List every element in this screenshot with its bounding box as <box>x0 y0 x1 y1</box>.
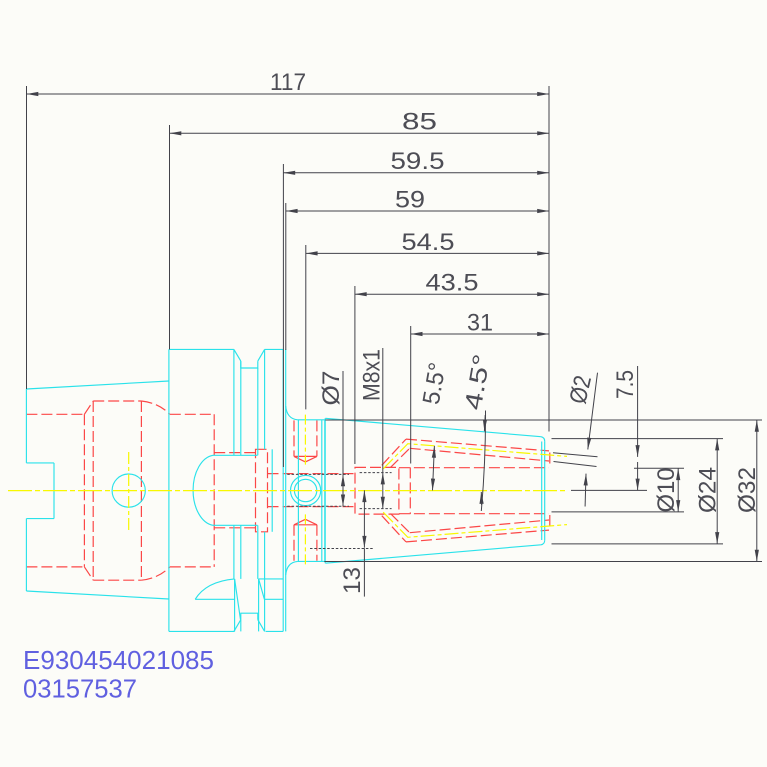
nose bore bottom <box>399 513 549 515</box>
hidden line top flange <box>170 413 214 415</box>
dim line 43.5 <box>355 293 549 295</box>
collet chamfer leg 2 bottom <box>391 514 410 533</box>
flange top edge <box>169 348 234 350</box>
ext line phi7 bottom <box>287 505 349 507</box>
top cross hole drill point <box>294 456 317 462</box>
collar circle edge a <box>297 420 299 562</box>
leader 4.5deg <box>481 411 485 512</box>
barrel vertical 1 <box>92 401 94 580</box>
ext line phi32 bottom <box>324 561 762 563</box>
collet taper inner bottom <box>410 520 549 533</box>
svg-text:Ø32: Ø32 <box>734 467 761 513</box>
ext line phi24 bottom <box>552 543 724 545</box>
top cross hole left edge <box>293 420 295 456</box>
dim line 59.5 <box>283 172 549 174</box>
neck fillet top <box>286 406 298 420</box>
collar2 bottom edge <box>266 630 284 632</box>
svg-text:59: 59 <box>395 187 425 214</box>
notch floor <box>53 463 55 519</box>
flange circle edge 4 lower <box>264 532 266 632</box>
dim line 54.5 <box>306 252 549 254</box>
cone top edge <box>325 418 541 436</box>
svg-text:85: 85 <box>402 109 437 136</box>
nose corner top <box>541 437 545 442</box>
ext line nose face <box>548 86 550 432</box>
side hole outer circle <box>291 475 321 505</box>
ext line 13 <box>310 548 374 550</box>
dim line phi7 <box>342 474 344 506</box>
bottom cross hole drill point <box>294 519 317 525</box>
barrel bottom line <box>93 579 141 581</box>
svg-text:117: 117 <box>270 69 306 96</box>
shank bore vertical centerline <box>128 452 130 530</box>
shank taper top <box>26 381 169 389</box>
flange bottom edge <box>169 630 235 632</box>
slot ext diagonal upper <box>553 453 598 457</box>
pocket top line <box>214 452 255 454</box>
svg-text:7.5: 7.5 <box>612 370 639 399</box>
barrel top line <box>93 400 141 402</box>
M8 thread square <box>355 467 399 514</box>
pocket square <box>256 449 268 532</box>
svg-text:54.5: 54.5 <box>402 229 455 256</box>
collet chamfer leg 1 top <box>382 439 406 465</box>
dim line phi24 <box>716 439 718 544</box>
barrel chamfer bottom-left <box>84 567 93 580</box>
flange circle edge 2 upper <box>240 361 242 455</box>
barrel vertical 2 <box>140 401 142 580</box>
collar bottom edge <box>298 560 325 562</box>
bore line lower (flange to M8) <box>268 506 356 508</box>
svg-text:Ø10: Ø10 <box>653 468 680 513</box>
ext line flange face <box>169 125 171 349</box>
slot ext diagonal lower <box>554 462 597 467</box>
ext line 7.5 bottom <box>571 489 647 491</box>
notch top <box>26 462 54 464</box>
leader 5.5deg <box>433 446 435 491</box>
drive slot diagonal left <box>235 579 241 620</box>
ext line phi24 top <box>552 438 724 440</box>
dim line 7.5 lower <box>637 462 639 490</box>
nose face hidden edge top <box>549 453 551 467</box>
ext line 43.5 <box>354 286 356 464</box>
collar2 right face <box>282 349 284 631</box>
flange groove floor top <box>241 361 258 368</box>
drive slot floor <box>195 598 234 600</box>
bore line upper (flange to M8) <box>268 473 356 475</box>
pocket visible edge <box>271 449 273 532</box>
dome arc <box>193 455 213 525</box>
ext line phi32 top <box>325 419 762 421</box>
bottom cross hole right edge <box>316 525 318 561</box>
svg-text:Ø7: Ø7 <box>318 371 345 406</box>
dim line 13 <box>363 490 365 547</box>
ext line phi10 bottom <box>552 511 685 513</box>
ext line phi10 top <box>634 467 684 469</box>
leader phi2 lower <box>584 474 587 507</box>
hidden line bottom flange <box>170 566 214 568</box>
ext line M8 bottom <box>360 508 392 510</box>
neck upper vertical <box>285 349 287 631</box>
shank hidden bore top line <box>26 413 84 415</box>
collet chamfer leg 2 top <box>391 448 410 467</box>
nose right face <box>544 441 546 540</box>
svg-text:M8x1: M8x1 <box>359 349 386 401</box>
ext line 54.5 <box>305 245 307 409</box>
neck fillet bottom <box>286 561 298 575</box>
barrel arc top-right <box>141 401 169 414</box>
drive slot cylinder arc <box>195 579 234 599</box>
barrel left vertical <box>83 414 85 567</box>
bottom hole centerline <box>304 514 306 566</box>
flange circle edge 3 upper <box>257 368 259 455</box>
dim line 7.5 upper <box>637 366 639 457</box>
dome stadium top <box>213 454 258 456</box>
dim line M8 leader <box>382 348 384 473</box>
collet taper outer bottom <box>406 530 549 542</box>
drive slot right shelf <box>259 578 284 580</box>
bottom cross hole left edge <box>293 525 295 561</box>
dim line phi32 <box>756 420 758 562</box>
drive slot edge vertical left <box>234 579 236 632</box>
main centerline <box>8 490 567 492</box>
collar circle edge b <box>321 420 323 562</box>
ext line M8 top <box>360 472 392 474</box>
ext line phi7 top <box>287 473 349 475</box>
collar2 top edge <box>265 348 284 350</box>
nose chamfer circle edge <box>541 442 543 541</box>
barrel arc bottom-right <box>141 567 169 580</box>
bottom cross hole flat <box>294 524 317 526</box>
pocket bottom line <box>214 527 255 529</box>
collet taper inner top <box>410 448 549 461</box>
shank bore circle <box>112 474 145 507</box>
flange circle edge 1 lower <box>233 525 235 579</box>
top cross hole flat <box>294 455 317 457</box>
drive slot right floor <box>264 598 283 600</box>
collet chamfer leg 1 bottom <box>382 516 406 542</box>
dim line phi7 leader <box>342 371 344 474</box>
shank hidden bore bottom line <box>26 566 84 568</box>
svg-text:03157537: 03157537 <box>23 674 137 704</box>
cone bottom edge <box>325 545 541 563</box>
drive slot diagonal right <box>259 579 265 599</box>
dome stadium bottom <box>213 524 258 526</box>
collar circle edge c <box>324 420 326 562</box>
top cross hole right edge <box>316 420 318 456</box>
flange groove chamfer top-right <box>258 349 265 361</box>
barrel chamfer top-left <box>84 401 93 414</box>
shank left face lower <box>25 519 27 591</box>
nose face hidden edge bottom <box>549 515 551 529</box>
collet slot centerline bottom <box>383 512 567 537</box>
svg-text:E930454021085: E930454021085 <box>23 645 214 675</box>
flange circle edge 4 upper <box>264 349 266 449</box>
top hole centerline <box>304 415 306 467</box>
cone big end face <box>324 418 326 563</box>
dim line phi10 <box>677 468 679 512</box>
pocket vertical hidden <box>213 414 215 567</box>
drive slot edge vertical right <box>258 579 260 632</box>
dim line 31 <box>411 333 549 335</box>
leader 4.5deg arrow top <box>483 415 486 431</box>
flange groove floor bottom <box>241 613 258 620</box>
flange circle edge 1 upper <box>233 349 235 455</box>
leader phi2 upper <box>588 373 598 450</box>
svg-text:43.5: 43.5 <box>426 270 479 297</box>
svg-text:31: 31 <box>467 310 493 337</box>
shank taper bottom <box>26 591 169 599</box>
svg-text:Ø24: Ø24 <box>695 467 722 513</box>
notch bottom <box>26 518 54 520</box>
side hole inner circle <box>294 479 316 501</box>
ext line 59.5 <box>282 164 284 467</box>
svg-text:59.5: 59.5 <box>391 148 445 175</box>
dim line M8 <box>382 473 384 509</box>
collet taper outer top <box>406 439 549 451</box>
collar top edge <box>298 419 325 421</box>
flange groove chamfer bottom-left <box>234 620 241 632</box>
flange circle edge 3 lower <box>257 525 259 579</box>
leader 4.5deg arrow bottom <box>480 492 482 505</box>
ext line 31 <box>410 326 412 464</box>
flange groove chamfer bottom-right <box>258 620 265 632</box>
flange groove chamfer top-left <box>234 349 241 361</box>
shank left face upper <box>25 389 27 463</box>
flange left face <box>168 349 170 631</box>
nose corner bottom <box>541 540 545 545</box>
dim line 59 <box>286 210 549 212</box>
nose bore top <box>399 467 549 469</box>
dim tail 13 <box>363 548 365 596</box>
ext line left end <box>26 86 28 389</box>
dim line 117 <box>27 93 550 95</box>
ext line 59 <box>285 203 287 350</box>
collet slot centerline top <box>383 444 567 469</box>
flange circle edge 2 lower <box>240 525 242 579</box>
counterbore step vertical <box>409 467 411 514</box>
svg-text:13: 13 <box>339 567 366 594</box>
dim line 85 <box>170 132 550 134</box>
